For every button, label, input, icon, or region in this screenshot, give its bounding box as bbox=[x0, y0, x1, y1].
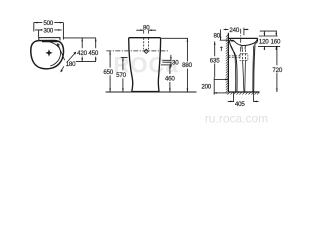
svg-text:420 450: 420 450 bbox=[77, 50, 99, 57]
svg-text:570: 570 bbox=[116, 72, 126, 79]
basin inner rim arc bbox=[47, 41, 61, 66]
dim 300 line bbox=[35, 29, 62, 31]
dim 460 line bbox=[169, 65, 171, 92]
svg-text:160: 160 bbox=[271, 38, 281, 45]
dim 720 line bbox=[276, 46, 278, 92]
dim 405 extensions bbox=[234, 93, 254, 102]
dim 635 line bbox=[214, 41, 216, 77]
dim 80 lower extension bbox=[220, 39, 229, 41]
leader from dim area bbox=[67, 52, 76, 62]
arrows 120 bbox=[263, 31, 265, 36]
svg-text:650: 650 bbox=[103, 69, 113, 76]
rear deck step bbox=[228, 38, 234, 40]
rim lip (side) bbox=[255, 38, 258, 43]
dim 80 line (front) bbox=[136, 29, 156, 31]
svg-text:80: 80 bbox=[213, 33, 220, 40]
trap box hidden bbox=[240, 54, 248, 61]
dim 570 line bbox=[122, 57, 124, 92]
svg-text:500: 500 bbox=[43, 20, 53, 27]
svg-text:200: 200 bbox=[201, 83, 211, 90]
dim 240 right extension bbox=[243, 28, 245, 36]
floor line (front view) bbox=[106, 91, 197, 93]
svg-text:80: 80 bbox=[143, 24, 150, 31]
dim 500 line bbox=[34, 22, 64, 24]
basin outer rim (plan) bbox=[31, 41, 64, 69]
dim 160 top ext line bbox=[260, 30, 277, 32]
drain funnel bbox=[242, 46, 246, 50]
svg-text:180: 180 bbox=[66, 61, 76, 68]
dim 880 extension top bbox=[161, 37, 188, 39]
floor hatch bbox=[227, 92, 259, 95]
vessel top edge bbox=[129, 37, 161, 39]
dim 570 extension bbox=[121, 56, 128, 58]
leader to 180 label bbox=[59, 46, 65, 60]
dim 650 line bbox=[109, 51, 111, 92]
deck shadow thick line bbox=[42, 40, 58, 42]
tap hole hidden lines bbox=[144, 38, 149, 50]
dim 120/160 bottom ext line bbox=[258, 45, 280, 47]
tap centreline (side) bbox=[240, 29, 242, 57]
tap centre diamond bbox=[144, 49, 148, 53]
svg-text:720: 720 bbox=[272, 67, 282, 74]
dim 500 extension left bbox=[33, 23, 35, 32]
tap hole star bbox=[56, 43, 61, 48]
plan bottom extension line bbox=[76, 61, 96, 63]
svg-text:880: 880 bbox=[182, 62, 192, 69]
vessel right edge bbox=[158, 38, 160, 92]
svg-text:460: 460 bbox=[165, 76, 175, 83]
dim 420 line bbox=[81, 38, 83, 62]
dim 80 (side) line bbox=[220, 29, 222, 40]
wall line bbox=[227, 33, 229, 92]
plan top extension line bbox=[63, 37, 96, 39]
leader arrow below 180 bbox=[61, 66, 64, 71]
svg-text:120: 120 bbox=[259, 38, 269, 45]
dim 30 extensions bbox=[162, 60, 171, 62]
svg-text:30: 30 bbox=[172, 59, 179, 66]
dim 240 line bbox=[224, 28, 249, 30]
dim 120 top ext line bbox=[259, 35, 278, 37]
floor line (side) bbox=[228, 91, 259, 93]
tap deck bar bbox=[39, 38, 60, 41]
small fitting mark bbox=[220, 47, 222, 52]
waste pipe hidden lines bbox=[242, 50, 245, 61]
waste arm to wall (hidden) bbox=[229, 56, 241, 57]
vessel bottom edge bbox=[132, 91, 159, 93]
dim 200 bracket bbox=[213, 77, 215, 94]
wall hatch bbox=[226, 35, 229, 93]
svg-text:240: 240 bbox=[229, 27, 239, 34]
rear edge of pedestal bbox=[229, 41, 237, 92]
dim 405 line bbox=[228, 100, 259, 102]
dim 450 line bbox=[95, 38, 97, 62]
bowl interior (section) bbox=[234, 39, 258, 46]
rim top edge (side) bbox=[228, 37, 257, 39]
arrows 160 bbox=[275, 31, 277, 36]
svg-text:300: 300 bbox=[43, 28, 53, 35]
tap hole ticks above bbox=[144, 30, 149, 33]
dim 30 arrows bbox=[170, 55, 172, 68]
svg-text:ru.roca.com: ru.roca.com bbox=[205, 111, 268, 125]
dim 500 extension right bbox=[62, 23, 64, 40]
dim 460 extension bbox=[161, 64, 172, 66]
vessel left edge bbox=[129, 38, 133, 92]
dim 880 line bbox=[186, 38, 188, 92]
front edge of pedestal bbox=[254, 43, 255, 92]
dim 300 extension left hook bbox=[38, 30, 40, 37]
drain star bbox=[45, 49, 52, 56]
svg-text:405: 405 bbox=[235, 101, 245, 108]
svg-text:635: 635 bbox=[210, 57, 220, 64]
waste pipe lower bbox=[243, 60, 246, 92]
centerline dash-dot bbox=[106, 50, 169, 52]
